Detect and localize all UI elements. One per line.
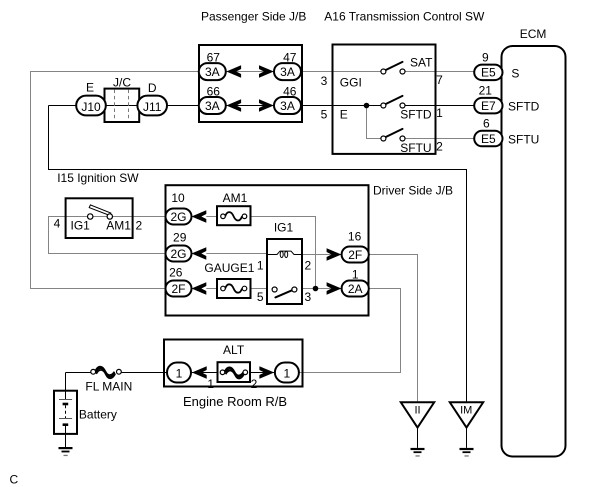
svg-text:E5: E5 — [481, 66, 496, 80]
svg-text:1: 1 — [257, 258, 264, 272]
svg-text:1: 1 — [207, 377, 214, 391]
svg-text:J11: J11 — [143, 100, 162, 114]
svg-text:IG1: IG1 — [274, 221, 294, 235]
svg-text:IG1: IG1 — [71, 219, 91, 233]
svg-text:IM: IM — [460, 405, 472, 417]
svg-text:SFTD: SFTD — [508, 100, 540, 114]
svg-text:3A: 3A — [280, 99, 295, 113]
svg-text:6: 6 — [483, 117, 490, 131]
svg-text:Passenger Side J/B: Passenger Side J/B — [201, 10, 306, 24]
svg-text:7: 7 — [436, 73, 443, 87]
svg-text:9: 9 — [482, 51, 489, 65]
svg-text:D: D — [148, 81, 157, 95]
svg-text:1: 1 — [436, 106, 443, 120]
svg-text:SFTD: SFTD — [400, 108, 432, 122]
svg-text:AM1: AM1 — [223, 191, 248, 205]
svg-text:SFTU: SFTU — [400, 141, 431, 155]
svg-text:E5: E5 — [481, 132, 496, 146]
svg-text:5: 5 — [257, 290, 264, 304]
svg-text:2F: 2F — [171, 282, 185, 296]
svg-text:II: II — [414, 405, 420, 417]
svg-text:E: E — [340, 108, 348, 122]
svg-text:S: S — [511, 67, 519, 81]
svg-text:SFTU: SFTU — [508, 133, 539, 147]
svg-text:3A: 3A — [205, 65, 220, 79]
svg-text:3A: 3A — [205, 99, 220, 113]
svg-text:AM1: AM1 — [106, 219, 131, 233]
svg-text:2G: 2G — [170, 247, 186, 261]
svg-text:26: 26 — [169, 266, 183, 280]
svg-text:67: 67 — [207, 51, 221, 65]
svg-text:46: 46 — [283, 85, 297, 99]
svg-text:2: 2 — [251, 377, 258, 391]
svg-text:2F: 2F — [348, 248, 362, 262]
svg-text:3A: 3A — [280, 65, 295, 79]
svg-text:2A: 2A — [348, 282, 363, 296]
svg-text:J/C: J/C — [113, 76, 131, 90]
svg-text:47: 47 — [283, 51, 297, 65]
svg-text:5: 5 — [321, 108, 328, 122]
svg-text:E7: E7 — [481, 99, 496, 113]
svg-text:A16 Transmission Control SW: A16 Transmission Control SW — [324, 10, 485, 24]
svg-text:3: 3 — [305, 290, 312, 304]
svg-text:I15 Ignition SW: I15 Ignition SW — [57, 171, 139, 185]
svg-text:2: 2 — [136, 219, 143, 233]
svg-text:1: 1 — [352, 268, 359, 282]
svg-text:GGI: GGI — [340, 76, 362, 90]
svg-text:E: E — [86, 81, 94, 95]
svg-text:C: C — [10, 473, 19, 487]
svg-text:21: 21 — [479, 84, 493, 98]
svg-text:29: 29 — [173, 231, 187, 245]
svg-text:ALT: ALT — [223, 343, 245, 357]
svg-text:ECM: ECM — [520, 27, 547, 41]
svg-text:66: 66 — [207, 85, 221, 99]
svg-text:GAUGE1: GAUGE1 — [204, 261, 254, 275]
svg-text:2G: 2G — [170, 210, 186, 224]
svg-text:3: 3 — [321, 74, 328, 88]
svg-text:FL MAIN: FL MAIN — [85, 380, 132, 394]
svg-text:1: 1 — [176, 366, 183, 380]
svg-text:16: 16 — [348, 229, 362, 243]
svg-text:2: 2 — [436, 140, 443, 154]
svg-text:10: 10 — [171, 191, 185, 205]
svg-text:1: 1 — [284, 366, 291, 380]
svg-text:J10: J10 — [81, 100, 101, 114]
svg-text:4: 4 — [54, 217, 61, 231]
svg-text:Driver Side J/B: Driver Side J/B — [373, 184, 453, 198]
svg-text:Battery: Battery — [79, 407, 117, 421]
svg-text:SAT: SAT — [410, 56, 433, 70]
svg-text:2: 2 — [305, 258, 312, 272]
svg-text:Engine Room R/B: Engine Room R/B — [183, 394, 287, 409]
